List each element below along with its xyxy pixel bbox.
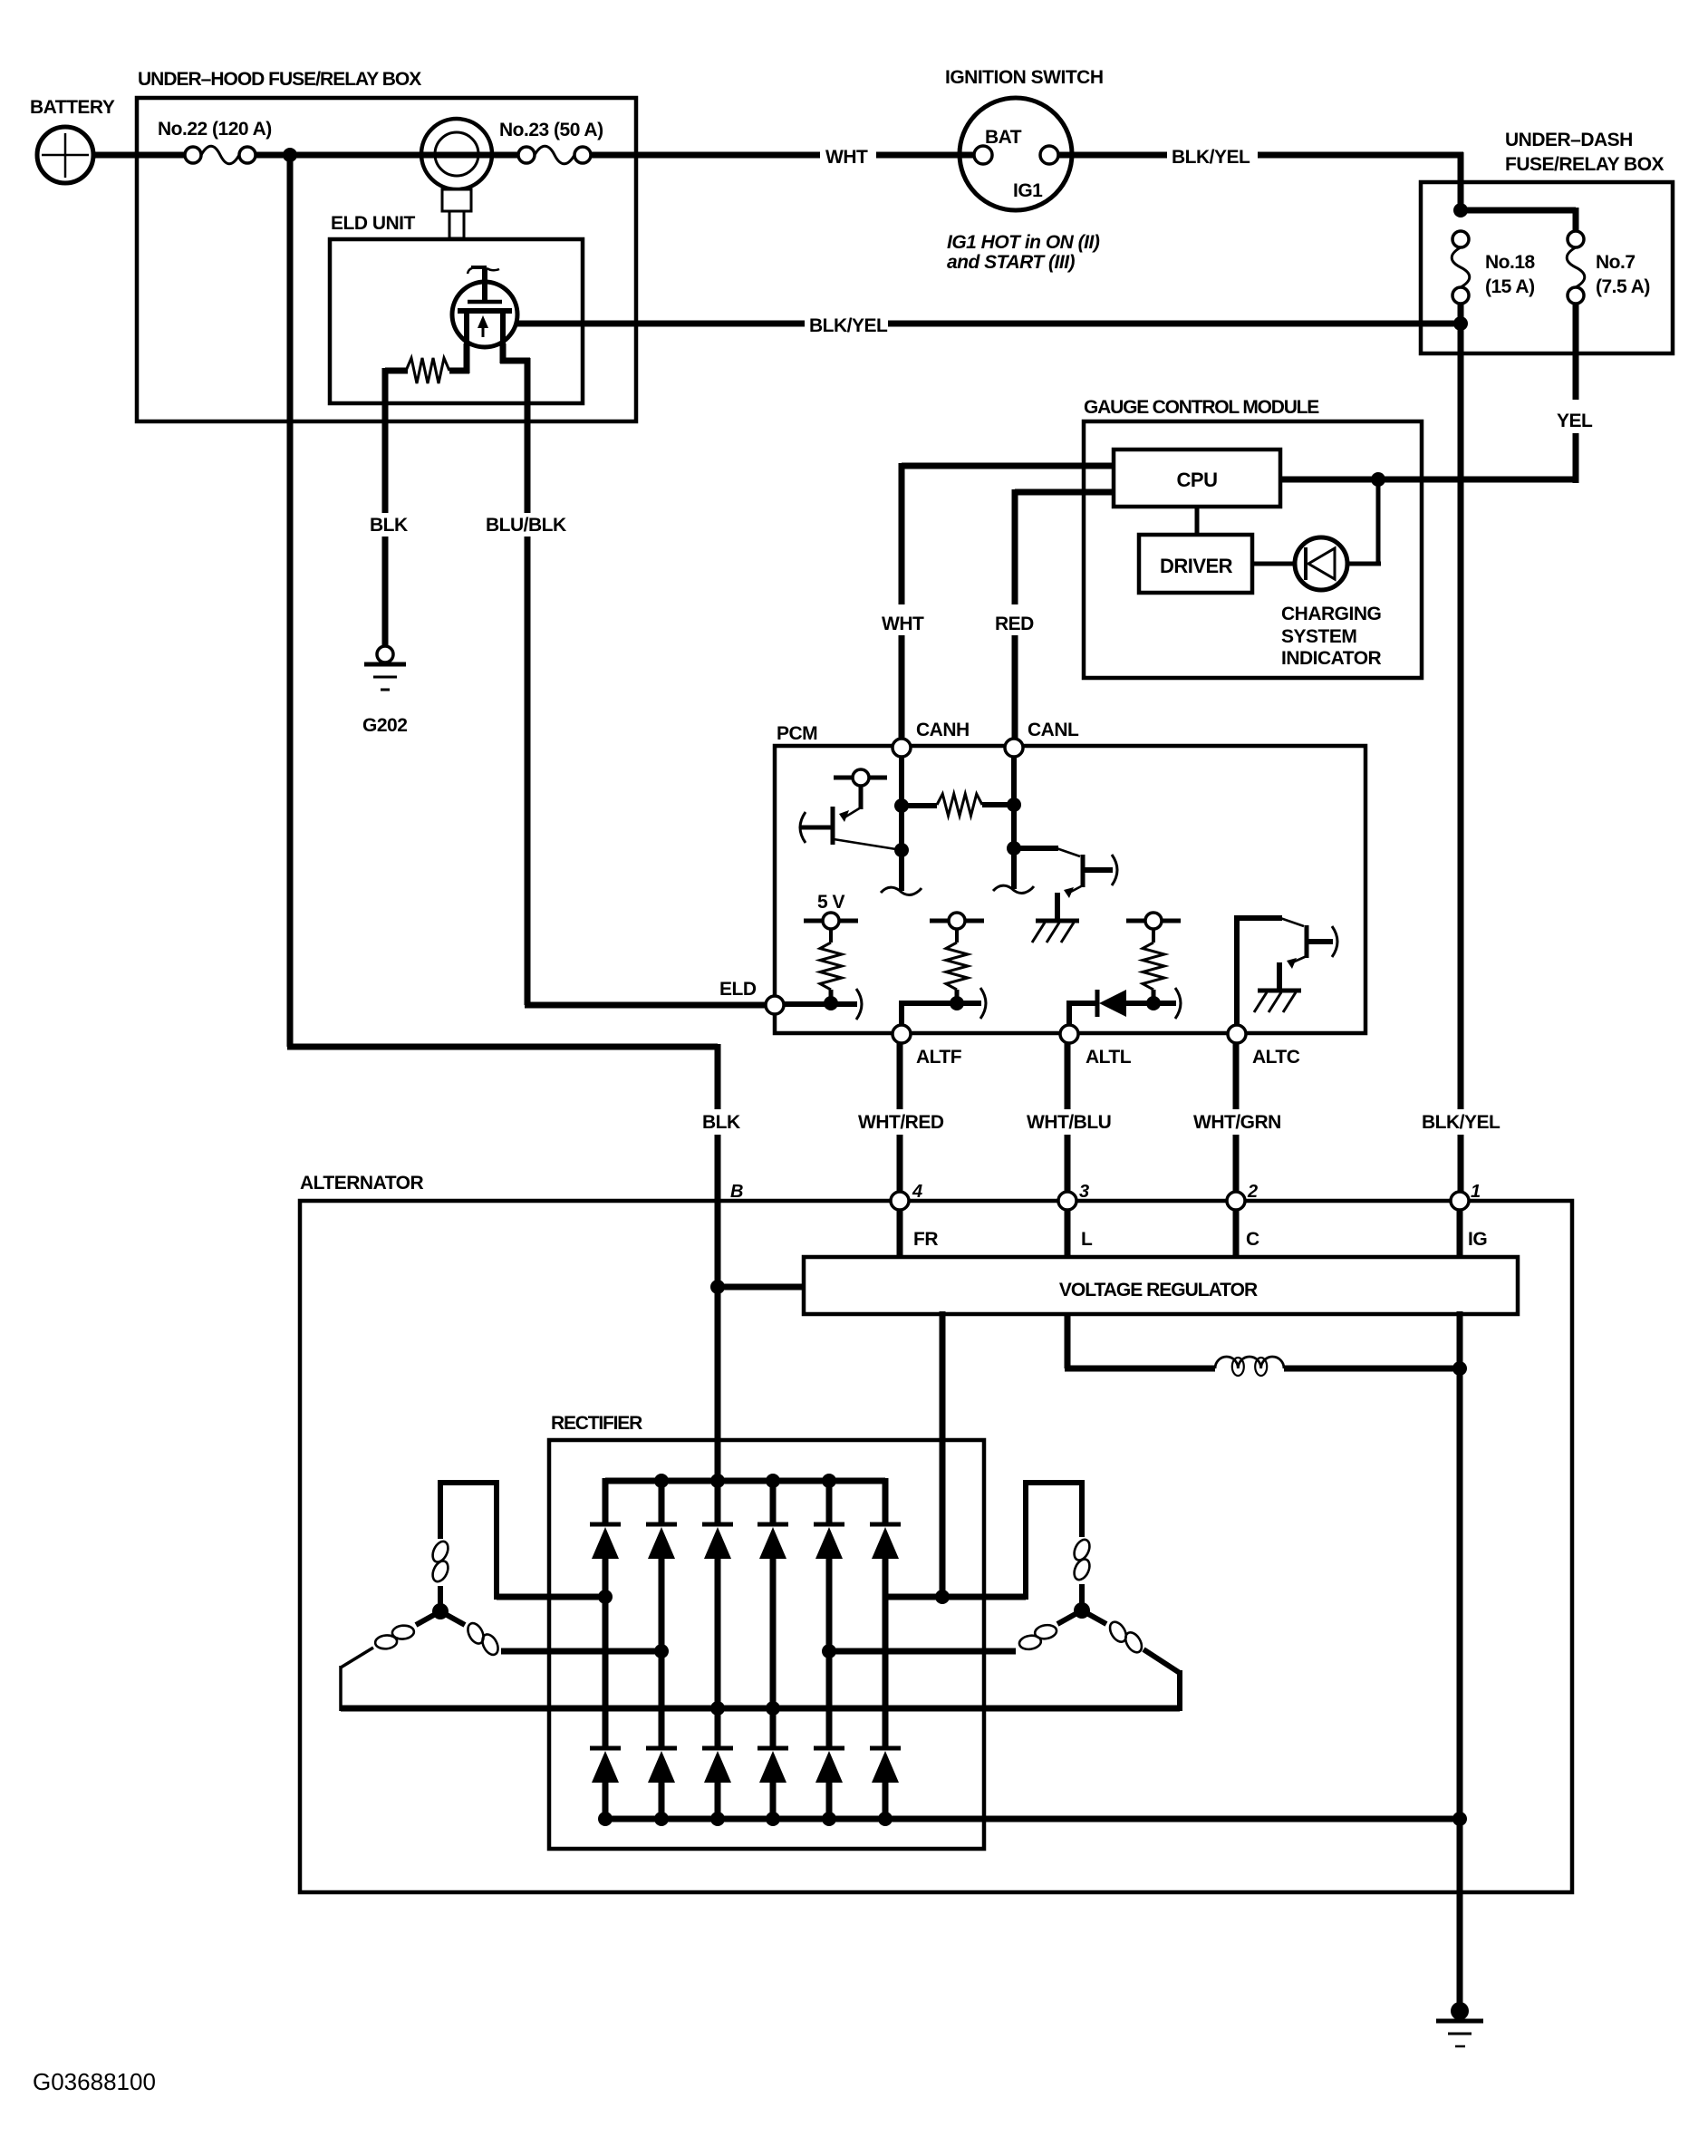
svg-text:BATTERY: BATTERY	[30, 97, 115, 118]
node ELD-R2	[824, 996, 838, 1010]
node phase Y junction	[822, 1644, 836, 1658]
wire DRIVER to indicator	[1252, 562, 1295, 566]
PCM box	[775, 746, 1365, 1033]
svg-text:IG1: IG1	[1013, 180, 1043, 201]
svg-text:ALTC: ALTC	[1252, 1047, 1300, 1068]
node CANH-Q2 collector	[894, 843, 909, 857]
terminal IG1	[1040, 146, 1058, 164]
wire regulator output to right stator junction	[940, 1311, 946, 1600]
svg-text:ALTF: ALTF	[916, 1047, 962, 1068]
wire battery to fuse No.22	[93, 152, 186, 159]
alternator box	[300, 1201, 1572, 1892]
wire C into regulator	[1233, 1210, 1240, 1260]
node phase Z junction	[766, 1701, 780, 1716]
diode D8 lower (column 1)	[590, 1748, 621, 1822]
wire BLK/YEL long drop to alternator IG	[1458, 303, 1464, 1109]
node field-IG junction	[1452, 1361, 1467, 1376]
svg-text:IG: IG	[1468, 1229, 1487, 1250]
wire stator phases W/Z to columns 3 and 4	[341, 1706, 1180, 1712]
node ALTF-R3	[950, 996, 964, 1010]
node bus col2	[654, 1474, 669, 1488]
resistor ELD sense	[385, 358, 469, 383]
wire field coil to IG drop	[1284, 1366, 1462, 1372]
svg-text:VOLTAGE REGULATOR: VOLTAGE REGULATOR	[1059, 1280, 1258, 1300]
under-hood fuse/relay box	[137, 98, 636, 421]
terminal BAT	[974, 146, 992, 164]
svg-text:3: 3	[1079, 1182, 1089, 1202]
wire BLU/BLK from ELD to PCM ELD pin	[525, 358, 531, 513]
resistor R2 ELD pull-up	[820, 929, 842, 1001]
wire regulator bottom to field junction	[1457, 1311, 1463, 1368]
wire BLK from ELD to ground G202	[382, 368, 389, 513]
wire IG into regulator	[1457, 1210, 1463, 1260]
rectifier box	[549, 1440, 984, 1849]
terminal ALTL	[1060, 1025, 1078, 1043]
terminal 4 FR	[891, 1192, 909, 1210]
svg-text:GAUGE CONTROL MODULE: GAUGE CONTROL MODULE	[1084, 397, 1319, 418]
svg-text:YEL: YEL	[1557, 411, 1593, 431]
wire regulator L output to field coil	[1065, 1314, 1071, 1368]
wire field junction down to rectifier common	[1457, 1366, 1463, 1822]
svg-text:BLU/BLK: BLU/BLK	[486, 515, 566, 536]
svg-text:SYSTEM: SYSTEM	[1281, 626, 1356, 647]
wire L into regulator	[1065, 1210, 1071, 1260]
node bus col5	[822, 1474, 836, 1488]
wire CANH internal	[899, 757, 904, 891]
resistor R3 ALTF pull-up	[946, 929, 968, 1001]
ground alternator	[1436, 2002, 1483, 2046]
diode D2 upper (column 1)	[590, 1478, 621, 1749]
svg-text:WHT/GRN: WHT/GRN	[1193, 1112, 1281, 1133]
wire WHT/RED ALTF to alternator FR	[897, 1043, 903, 1109]
right stator winding	[1018, 1480, 1180, 1711]
wire right stator phase X to column 6	[883, 1594, 1026, 1600]
svg-text:2: 2	[1247, 1182, 1258, 1202]
node left stator neutral	[432, 1603, 449, 1619]
svg-text:CANH: CANH	[916, 720, 970, 740]
node CANL-resistor	[1007, 798, 1021, 812]
svg-text:BLK/YEL: BLK/YEL	[1422, 1112, 1501, 1133]
node negative bus x853	[766, 1812, 780, 1826]
wire battery junction to alternator B	[287, 152, 294, 1047]
terminal CANL	[1005, 739, 1023, 757]
wire junction down to indicator	[1376, 477, 1381, 564]
wire WHT/BLU ALTL to alternator L	[1065, 1043, 1071, 1109]
wire left stator phase U to column 1	[497, 1594, 608, 1600]
diode D7 upper (column 6)	[870, 1478, 901, 1749]
svg-text:RECTIFIER: RECTIFIER	[551, 1413, 642, 1434]
transistor Q2 CANH driver	[800, 769, 902, 850]
terminal 2 C	[1227, 1192, 1245, 1210]
node bus col4	[766, 1474, 780, 1488]
wire MOSFET drain to BLU/BLK	[500, 343, 507, 363]
left stator winding	[341, 1480, 501, 1711]
rectifier positive bus	[605, 1478, 885, 1484]
svg-text:BLK: BLK	[370, 515, 408, 536]
svg-text:G202: G202	[362, 715, 407, 736]
node CANH-resistor	[894, 798, 909, 813]
svg-text:G03688100: G03688100	[33, 2068, 156, 2095]
diode D3 upper (column 2)	[646, 1478, 677, 1749]
ground G202	[364, 646, 406, 690]
svg-text:INDICATOR: INDICATOR	[1281, 648, 1382, 669]
node B junction to regulator	[710, 1280, 725, 1294]
wire CPU to YEL fuse No.7	[1280, 477, 1576, 483]
diode D12 lower (column 5)	[814, 1748, 844, 1822]
svg-text:WHT: WHT	[825, 147, 868, 168]
svg-text:L: L	[1081, 1229, 1093, 1250]
node negative bus x977	[878, 1812, 893, 1826]
fuse No.18 (15 A)	[1452, 231, 1470, 304]
wire rectifier common to ground	[1457, 1816, 1463, 2007]
node negative bus x668	[598, 1812, 613, 1826]
svg-text:No.22 (120 A): No.22 (120 A)	[158, 119, 272, 140]
svg-text:C: C	[1246, 1229, 1259, 1250]
svg-text:and START (III): and START (III)	[947, 252, 1076, 273]
node under-dash feed junction	[1453, 203, 1468, 218]
ignition switch	[960, 98, 1072, 210]
node CANL-Q3 base	[1007, 841, 1021, 856]
terminal ELD	[766, 996, 784, 1014]
node battery feed junction	[283, 148, 297, 162]
svg-text:No.7: No.7	[1596, 252, 1636, 273]
under-dash fuse/relay box	[1421, 182, 1673, 353]
terminal ALTF	[893, 1025, 911, 1043]
svg-text:IGNITION SWITCH: IGNITION SWITCH	[945, 67, 1104, 88]
transistor Q4 ALTC	[1234, 915, 1337, 1027]
svg-text:(7.5 A): (7.5 A)	[1596, 276, 1650, 297]
terminal 3 L	[1058, 1192, 1076, 1210]
svg-text:BLK/YEL: BLK/YEL	[1172, 147, 1250, 168]
wire B junction to regulator left	[715, 1284, 804, 1291]
terminal ALTC	[1228, 1025, 1246, 1043]
svg-text:ALTERNATOR: ALTERNATOR	[300, 1173, 423, 1194]
node BLK/YEL under-dash junction	[1453, 316, 1468, 331]
svg-text:UNDER–DASH: UNDER–DASH	[1505, 130, 1633, 150]
svg-text:ALTL: ALTL	[1086, 1047, 1132, 1068]
fuse No.7 (7.5 A)	[1567, 231, 1585, 304]
terminal CANH	[893, 739, 911, 757]
rectifier negative bus	[605, 1816, 1462, 1822]
diode D9 lower (column 2)	[646, 1748, 677, 1822]
diode D10 lower (column 3)	[702, 1748, 733, 1822]
diode D4 upper (column 3)	[702, 1478, 733, 1749]
wire RED from CPU to PCM CANL	[1015, 489, 1114, 496]
transistor Q1 ELD MOSFET	[452, 267, 517, 347]
diode D13 lower (column 6)	[870, 1748, 901, 1822]
svg-text:WHT: WHT	[882, 614, 924, 634]
node negative bus to field common	[1452, 1812, 1467, 1826]
wire ALTF internal	[902, 1001, 981, 1006]
wire BLK/YEL down into under-dash box	[1458, 152, 1464, 212]
svg-text:4: 4	[912, 1182, 922, 1202]
wire ELD internal	[784, 1001, 857, 1007]
charging system indicator LED	[1295, 537, 1347, 590]
resistor R4 ALTL pull-up	[1143, 929, 1164, 1001]
wire B down to rectifier	[715, 1284, 721, 1484]
diode D1 ALTL	[1069, 988, 1181, 1027]
svg-text:ELD UNIT: ELD UNIT	[331, 213, 416, 234]
node phase W junction	[710, 1701, 725, 1716]
wire fuse No.22 to fuse No.23	[255, 152, 519, 159]
wire junction to fuse No.7	[1458, 208, 1576, 214]
svg-text:CHARGING: CHARGING	[1281, 604, 1381, 624]
wire right stator phase Y to column 5	[826, 1648, 1016, 1655]
wire fuse No.23 to ignition switch BAT	[590, 152, 820, 159]
svg-text:WHT/RED: WHT/RED	[858, 1112, 944, 1133]
diode D6 upper (column 5)	[814, 1478, 844, 1749]
wire MOSFET source to resistor	[464, 343, 470, 373]
wire WHT/GRN ALTC to alternator C	[1233, 1043, 1240, 1109]
supply 5 V	[804, 913, 858, 929]
resistor R1 CAN termination	[902, 794, 1014, 816]
DRIVER block	[1139, 535, 1252, 593]
wire ignition switch IG1 to under-dash box	[1058, 152, 1167, 159]
svg-text:BLK/YEL: BLK/YEL	[809, 315, 888, 336]
ELD current sensor	[421, 119, 492, 238]
node ALTL-R4	[1146, 996, 1161, 1010]
battery	[37, 127, 93, 183]
svg-text:PCM: PCM	[777, 723, 817, 744]
node phase V junction	[654, 1644, 669, 1658]
wire WHT from CPU to PCM CANH	[902, 463, 1114, 469]
svg-text:1: 1	[1471, 1182, 1481, 1202]
wire ELD gate to BLK/YEL (to under-dash)	[516, 321, 805, 327]
svg-text:B: B	[730, 1182, 743, 1202]
terminal 1 IG	[1451, 1192, 1469, 1210]
wire CPU to DRIVER	[1195, 507, 1200, 535]
svg-text:5 V: 5 V	[817, 892, 845, 913]
svg-text:FR: FR	[913, 1229, 938, 1250]
inductor rotor field coil	[1215, 1357, 1284, 1368]
voltage regulator box	[804, 1257, 1518, 1314]
node bus-B	[710, 1474, 725, 1488]
wire left stator phase V to column 2	[501, 1648, 664, 1655]
transistor Q3 CANL driver	[1014, 848, 1117, 943]
node right stator neutral	[1074, 1602, 1090, 1619]
svg-text:CANL: CANL	[1028, 720, 1079, 740]
diode D5 upper (column 4)	[758, 1478, 788, 1749]
node negative bus x792	[710, 1812, 725, 1826]
svg-text:BAT: BAT	[985, 127, 1022, 148]
wire FR into regulator	[897, 1210, 903, 1260]
diode D11 lower (column 4)	[758, 1748, 788, 1822]
wire CANL internal	[1011, 757, 1017, 889]
node negative bus x730	[654, 1812, 669, 1826]
CPU block	[1114, 450, 1280, 507]
svg-text:ELD: ELD	[719, 979, 757, 1000]
svg-text:FUSE/RELAY BOX: FUSE/RELAY BOX	[1505, 154, 1665, 175]
node negative bus x915	[822, 1812, 836, 1826]
svg-text:IG1 HOT in ON (II): IG1 HOT in ON (II)	[947, 232, 1100, 253]
node regulator-phase X junction	[935, 1590, 950, 1604]
svg-text:UNDER–HOOD FUSE/RELAY BOX: UNDER–HOOD FUSE/RELAY BOX	[138, 69, 421, 90]
svg-text:WHT/BLU: WHT/BLU	[1027, 1112, 1111, 1133]
svg-text:No.18: No.18	[1485, 252, 1536, 273]
gauge control module box	[1084, 421, 1422, 678]
supply pull-up ALTL	[1126, 913, 1181, 929]
svg-text:DRIVER: DRIVER	[1160, 555, 1233, 577]
supply pull-up ALTF	[930, 913, 984, 929]
node phase U junction	[598, 1590, 613, 1604]
svg-text:No.23 (50 A): No.23 (50 A)	[499, 120, 603, 140]
svg-text:CPU: CPU	[1177, 469, 1218, 491]
fuse No.22	[185, 146, 256, 164]
svg-text:RED: RED	[995, 614, 1034, 634]
fuse No.23	[518, 146, 591, 164]
ELD unit box	[330, 239, 583, 403]
node CPU-indicator junction	[1371, 472, 1385, 487]
svg-text:BLK: BLK	[702, 1112, 740, 1133]
svg-text:(15 A): (15 A)	[1485, 276, 1535, 297]
